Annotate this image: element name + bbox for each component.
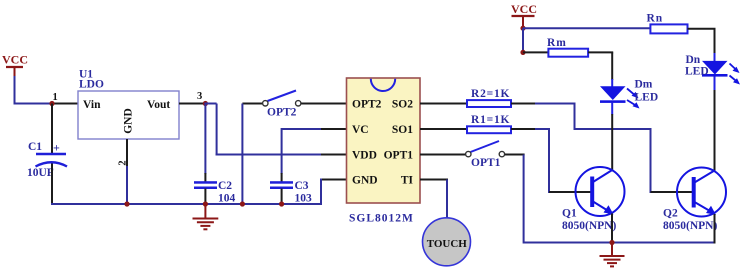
wire OPT2 descent <box>241 104 243 206</box>
transistor Q2 <box>663 168 726 233</box>
svg-text:103: 103 <box>295 193 313 205</box>
wire Dm to Q1 collector <box>611 114 613 171</box>
resistor R2 <box>467 88 511 107</box>
ground symbol left <box>193 204 219 229</box>
svg-text:TOUCH: TOUCH <box>427 238 468 250</box>
svg-text:VCC: VCC <box>511 2 537 16</box>
svg-text:104: 104 <box>218 193 236 205</box>
svg-text:8050(NPN): 8050(NPN) <box>663 220 717 232</box>
svg-text:10UF: 10UF <box>27 167 54 179</box>
node junction C2 rail <box>203 201 208 206</box>
wire SO1 lead to R1 <box>420 128 473 130</box>
svg-text:8050(NPN): 8050(NPN) <box>562 220 616 232</box>
LED Dm <box>600 79 658 115</box>
LED Dn <box>685 53 740 91</box>
capacitor C2 <box>194 180 236 205</box>
touch pad TOUCH <box>423 218 471 266</box>
wire R1 right black <box>511 128 536 130</box>
wire U1 pin3 lead <box>179 103 206 105</box>
wire VCC to Rn <box>523 27 650 29</box>
svg-text:Rn: Rn <box>647 13 664 25</box>
wire Q2 base <box>651 191 695 193</box>
svg-text:LED: LED <box>685 66 709 78</box>
switch OPT1 <box>466 141 505 169</box>
svg-text:SGL8012M: SGL8012M <box>349 213 414 225</box>
wire Rn to Dn <box>688 29 716 54</box>
wire to Rm <box>523 51 548 53</box>
wire VC pin lead <box>321 128 347 130</box>
svg-text:R2=1K: R2=1K <box>471 88 510 100</box>
svg-text:OPT1: OPT1 <box>471 157 501 169</box>
wire TI lead <box>420 179 448 181</box>
wire C3 bottom lead <box>281 189 283 206</box>
svg-text:C3: C3 <box>295 180 309 192</box>
node junction ground right <box>609 240 614 245</box>
svg-text:TI: TI <box>401 175 414 187</box>
wire Rm to Dm <box>588 52 613 80</box>
wire R1 right blue <box>535 128 550 130</box>
svg-text:OPT2: OPT2 <box>267 107 297 119</box>
svg-text:LED: LED <box>635 92 659 104</box>
wire OPT2 left <box>242 103 263 105</box>
wire C1 top lead <box>51 104 53 154</box>
svg-text:Vin: Vin <box>83 99 101 111</box>
wire C2 bottom lead <box>204 189 206 206</box>
svg-text:2: 2 <box>118 160 129 165</box>
wire OPT2 right to IC <box>301 103 346 105</box>
svg-text:GND: GND <box>352 175 378 187</box>
wire ground rail left <box>51 203 321 205</box>
wire VC jog <box>282 128 322 174</box>
node junction C3 rail <box>279 201 284 206</box>
node junction at pin3 <box>203 101 208 106</box>
svg-text:Dm: Dm <box>635 79 653 91</box>
svg-text:OPT2: OPT2 <box>352 99 382 111</box>
wire pin3 to VDD jog <box>204 104 321 156</box>
wire SO2 lead to R2 <box>420 103 473 105</box>
wire VCC left down <box>14 76 16 104</box>
wire C1 bottom lead <box>51 164 53 206</box>
capacitor C3 <box>270 180 312 205</box>
svg-text:3: 3 <box>197 91 202 102</box>
svg-text:LDO: LDO <box>79 79 104 91</box>
node junction pin2 rail <box>124 201 129 206</box>
wire VCC down <box>522 28 524 53</box>
svg-text:Vout: Vout <box>147 99 170 111</box>
ground symbol right <box>600 243 625 267</box>
svg-text:VC: VC <box>352 124 369 136</box>
switch OPT2 <box>263 91 301 119</box>
wire emitter rail right <box>524 242 715 244</box>
wire OPT1 right <box>505 154 525 156</box>
IC U2 SGL8012M <box>347 78 421 225</box>
wire Q1 base descent <box>548 129 550 193</box>
svg-text:C2: C2 <box>218 180 232 192</box>
svg-text:C1: C1 <box>28 141 42 153</box>
node junction VCC top <box>520 26 525 31</box>
node junction at pin1 <box>49 101 54 106</box>
svg-text:R1=1K: R1=1K <box>471 114 510 126</box>
wire Dn to Q2 collector <box>714 90 716 171</box>
wire C2 top <box>204 104 206 175</box>
resistor R1 <box>467 114 511 133</box>
svg-text:VCC: VCC <box>2 53 28 67</box>
wire U1 pin2 lead <box>126 139 128 167</box>
wire U1 pin2 to rail <box>126 166 128 205</box>
wire Q2 emitter to rail <box>714 214 716 244</box>
svg-text:GND: GND <box>123 108 135 134</box>
wire R2 right black <box>511 103 536 105</box>
wire R2 jog right <box>575 128 652 130</box>
capacitor C1 <box>27 141 67 180</box>
wire C2 top lead <box>204 173 206 182</box>
wire GND pin to rail <box>320 179 322 206</box>
wire TI down to touch <box>446 180 448 220</box>
wire R2 right blue <box>535 103 576 105</box>
wire OPT1 pin lead <box>420 154 466 156</box>
wire Q1 emitter to rail <box>611 214 613 244</box>
node junction VCC Rm <box>520 50 525 55</box>
svg-text:Q2: Q2 <box>663 208 678 220</box>
svg-text:OPT1: OPT1 <box>384 150 414 162</box>
node junction OPT2 rail <box>240 201 245 206</box>
svg-text:Rm: Rm <box>547 37 567 49</box>
svg-text:+: + <box>53 141 60 155</box>
svg-text:SO1: SO1 <box>392 124 413 136</box>
wire C3 top lead <box>281 173 283 182</box>
svg-text:Dn: Dn <box>686 54 701 66</box>
wire R2 jog down <box>574 104 576 131</box>
power symbol VCC (right) <box>511 2 537 28</box>
wire U1 pin1 lead <box>52 103 78 105</box>
wire GND pin lead <box>321 179 347 181</box>
wire OPT1 descent <box>523 155 525 244</box>
svg-text:VDD: VDD <box>352 150 377 162</box>
wire VDD pin lead <box>321 154 347 156</box>
wire VCC left to node 1 <box>14 103 54 105</box>
resistor Rm <box>547 37 588 57</box>
wire Q2 base descent <box>650 129 652 193</box>
wire Q1 base <box>549 191 593 193</box>
svg-text:Q1: Q1 <box>562 208 577 220</box>
svg-text:SO2: SO2 <box>392 99 413 111</box>
power symbol VCC (left) <box>2 53 28 78</box>
transistor Q1 <box>562 167 625 232</box>
resistor Rn <box>647 13 688 34</box>
regulator U1 box <box>78 69 179 140</box>
